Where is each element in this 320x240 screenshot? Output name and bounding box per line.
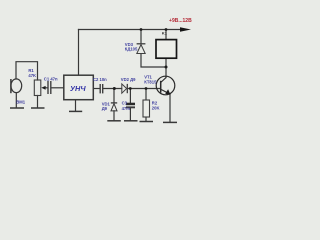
amplifier block U1 УНЧ <box>64 75 94 100</box>
transistor VT1 <box>156 76 175 95</box>
wire relay K1 bottom lead <box>165 59 167 68</box>
potentiometer R1 <box>34 80 45 96</box>
junction dot C3 top <box>129 87 132 90</box>
wire VD3 top lead <box>140 30 142 44</box>
svg-text:C3: C3 <box>122 101 128 106</box>
wire C1 to amp input <box>51 87 63 89</box>
wire amp ground lead <box>75 100 77 111</box>
capacitor C3 electrolytic <box>126 103 135 109</box>
svg-text:BM1: BM1 <box>16 100 26 105</box>
resistor R2 <box>143 100 150 117</box>
power arrow <box>180 27 191 31</box>
capacitor C2 <box>100 84 103 93</box>
junction dot collector node <box>165 66 168 69</box>
svg-text:VD2 Д9: VD2 Д9 <box>121 77 136 82</box>
diode VD3 <box>137 44 146 54</box>
junction dot rail K1 <box>165 28 168 31</box>
svg-text:47m: 47m <box>122 106 131 111</box>
wire emitter to ground <box>169 94 171 122</box>
diode VD2 <box>122 84 128 93</box>
ground (emitter) <box>163 121 177 123</box>
wire C3 bottom lead <box>129 108 131 120</box>
svg-text:47K: 47K <box>28 73 36 78</box>
wire C2 to node A <box>103 88 121 90</box>
svg-text:КТ815: КТ815 <box>144 79 157 84</box>
svg-text:Д9: Д9 <box>102 106 108 111</box>
svg-text:+9В...12В: +9В...12В <box>169 18 192 24</box>
svg-text:20K: 20K <box>152 105 160 110</box>
node A junction dot <box>113 87 116 90</box>
wire VD1 bottom to ground <box>113 111 115 121</box>
svg-text:КД105: КД105 <box>125 46 138 51</box>
ground (R1) <box>31 107 45 109</box>
capacitor C1 <box>48 81 51 94</box>
svg-text:K1: K1 <box>162 30 168 35</box>
wire C3 top lead <box>129 89 131 103</box>
svg-text:C1 47n: C1 47n <box>44 76 58 81</box>
junction dot rail VD3 <box>140 28 143 31</box>
wire wiper to C1 <box>45 87 47 89</box>
wire amp power lead <box>78 30 80 76</box>
svg-text:C2 10n: C2 10n <box>93 77 107 82</box>
diode VD1 <box>111 103 117 111</box>
relay K1 <box>156 40 177 59</box>
junction dot R2 top <box>145 87 148 90</box>
wire power rail <box>79 29 182 31</box>
ground (mic) <box>10 107 24 109</box>
wire mic bottom to ground <box>15 93 17 108</box>
wire mic top to R1 top <box>16 62 38 80</box>
wire VD3 bottom to collector node <box>141 54 166 67</box>
ground (amp) <box>69 110 82 112</box>
wire node A down to VD1 <box>113 89 115 103</box>
wire R1 bottom to ground <box>37 96 39 108</box>
ground (VD1) <box>107 120 121 122</box>
wire VD2 cathode to base <box>128 88 161 90</box>
ground (R2) <box>140 121 154 123</box>
wire amp output to C2 <box>94 88 100 90</box>
svg-text:УНЧ: УНЧ <box>70 84 86 93</box>
microphone BM1 <box>11 79 22 93</box>
wire R2 top lead <box>145 89 147 101</box>
wire R2 bottom lead <box>145 117 147 121</box>
ground (C3) <box>124 120 138 122</box>
wire relay K1 top lead <box>165 30 167 40</box>
wire collector lead <box>165 67 167 78</box>
